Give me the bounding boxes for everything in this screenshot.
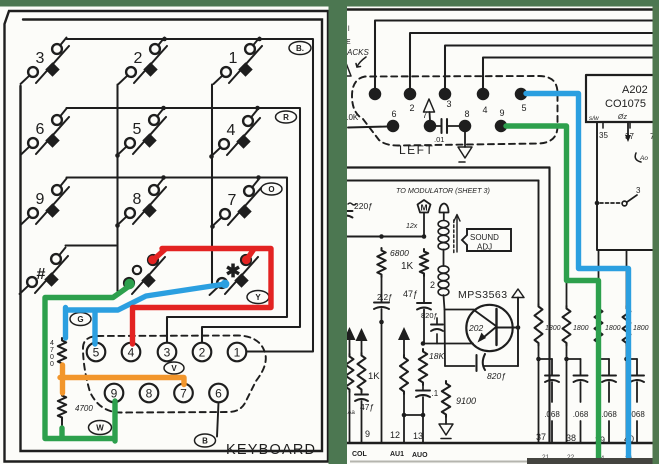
- red wire end blobs: [148, 255, 251, 264]
- svg-text:0: 0: [50, 354, 54, 361]
- keyboard pin 1: [228, 343, 247, 362]
- svg-text:MPS3563: MPS3563: [458, 289, 508, 301]
- row bus B (row 1) with corner down to pin 1: [67, 37, 314, 352]
- resistor 1K (lower): [358, 353, 381, 392]
- ground below DIN pin 8: [458, 132, 472, 163]
- svg-text:9: 9: [111, 387, 118, 401]
- transformer primary coil: [438, 221, 449, 250]
- svg-text:CO1075: CO1075: [605, 98, 646, 110]
- column line 3 (keys 1,4,7,*): [209, 85, 215, 285]
- row bus O (row 3) with corner down to pin 3: [67, 175, 288, 342]
- svg-text:2: 2: [430, 280, 435, 290]
- svg-text:1800: 1800: [545, 325, 561, 332]
- resistor 1800 #3: [595, 250, 621, 443]
- svg-text:2: 2: [409, 103, 414, 113]
- resistor (left edge): [346, 354, 354, 443]
- svg-text:W: W: [96, 424, 104, 433]
- capacitor .068 #1: [539, 359, 561, 443]
- svg-text:Ao: Ao: [639, 155, 648, 162]
- key switch 1: [214, 38, 263, 85]
- keyboard pin 9: [105, 384, 124, 403]
- top green binding bar: [0, 0, 659, 7]
- capacitor 820f (emitter): [445, 354, 518, 381]
- svg-text:A202: A202: [622, 84, 648, 96]
- bottom pin numbers: [365, 429, 634, 445]
- svg-text:13: 13: [413, 431, 423, 441]
- svg-text:SOUND: SOUND: [470, 233, 499, 242]
- green wire end blob: [124, 279, 134, 289]
- svg-text:.1: .1: [432, 389, 439, 398]
- wire pin6 to node B: [217, 403, 219, 437]
- svg-text:4: 4: [482, 105, 487, 115]
- key switch 5: [118, 109, 167, 156]
- main circuit box top border: [347, 166, 550, 168]
- key switch 6: [21, 109, 70, 156]
- svg-text:M: M: [420, 203, 427, 213]
- svg-text:Y: Y: [255, 293, 261, 302]
- node Y (row4): [247, 291, 269, 304]
- svg-text:V: V: [171, 364, 177, 373]
- A202 pin line to rail: [595, 122, 655, 250]
- svg-text:LEFT: LEFT: [399, 143, 434, 157]
- right green page edge: [653, 7, 659, 464]
- svg-text:B.: B.: [296, 44, 304, 53]
- svg-text:6: 6: [391, 109, 396, 119]
- blue wire end blob: [221, 280, 230, 289]
- IC A202 CO1075 box: [586, 75, 655, 122]
- triangle above DIN pin 7: [424, 99, 435, 121]
- resistor 1800 #2: [563, 250, 589, 443]
- svg-text:2: 2: [199, 346, 206, 360]
- svg-text:TO MODULATOR (SHEET 3): TO MODULATOR (SHEET 3): [396, 186, 490, 195]
- node V: [164, 362, 184, 374]
- svg-text:.068: .068: [629, 410, 645, 419]
- keyboard pin 2: [193, 343, 212, 362]
- green page divider (top layer): [329, 7, 348, 464]
- svg-text:KEYBOARD: KEYBOARD: [226, 442, 316, 458]
- svg-text:1K: 1K: [401, 261, 414, 272]
- svg-text:38: 38: [566, 433, 576, 443]
- svg-text:0: 0: [50, 361, 54, 368]
- DIN pin 9 (bottom row): [496, 108, 507, 131]
- svg-text:220ƒ: 220ƒ: [354, 201, 373, 211]
- capacitor 220f at left edge: [340, 201, 373, 237]
- wire 6800 column to bottom: [381, 322, 383, 443]
- svg-text:37: 37: [536, 432, 546, 442]
- key switch 7: [213, 180, 262, 227]
- svg-text:8: 8: [464, 109, 469, 119]
- node W: [89, 421, 112, 435]
- left edge marks: [348, 410, 356, 416]
- svg-text:4: 4: [128, 346, 135, 360]
- svg-text:9: 9: [365, 429, 370, 439]
- DIN pin 5 (top row): [516, 89, 527, 113]
- svg-text:3: 3: [36, 50, 45, 67]
- svg-text:5: 5: [521, 103, 526, 113]
- svg-text:3: 3: [446, 99, 451, 109]
- key switch 4: [212, 110, 261, 157]
- wire DIN pin 4 up and right: [483, 58, 655, 90]
- keyboard pin 3: [158, 343, 177, 362]
- svg-text:4: 4: [50, 340, 54, 347]
- svg-text:8: 8: [146, 387, 153, 401]
- resistor 9100: [442, 381, 476, 417]
- resistor 18K: [419, 349, 445, 385]
- wire emitter bottom-left: [421, 341, 473, 346]
- svg-text:9: 9: [36, 191, 45, 208]
- label 2 (coil tap): [430, 280, 435, 290]
- key switch #: [20, 248, 69, 295]
- LEFT connector dashed outline: [352, 76, 558, 146]
- key switch 0: [117, 249, 166, 296]
- key switch *: [210, 249, 259, 296]
- svg-text:12: 12: [390, 430, 400, 440]
- tiny edge numbers: [542, 454, 633, 462]
- node B (pin6): [195, 434, 216, 447]
- resistor 4700 (lower): [58, 393, 94, 429]
- svg-text:820ƒ: 820ƒ: [487, 371, 506, 381]
- svg-text:202: 202: [468, 323, 483, 333]
- svg-text:4: 4: [227, 122, 236, 139]
- supply triangle middle column: [398, 327, 410, 355]
- wire 1800 #1 to inner border: [538, 181, 540, 305]
- triangle above coil: [440, 204, 449, 221]
- wire coil to transistor base: [445, 309, 474, 311]
- wire DIN pin 6 to left edge: [348, 127, 388, 128]
- svg-text:✱: ✱: [225, 261, 240, 281]
- svg-text:ADJ: ADJ: [477, 243, 492, 252]
- column line 1 (keys 3,6,9,#): [19, 86, 21, 300]
- label 10K: [344, 113, 359, 122]
- blue wire (DIN pin 5 down right side): [526, 94, 629, 464]
- keyboard pin 8: [140, 384, 159, 403]
- svg-text:47ƒ: 47ƒ: [403, 289, 418, 299]
- svg-text:2: 2: [134, 50, 143, 67]
- svg-text:6: 6: [215, 387, 222, 401]
- svg-text:3: 3: [164, 346, 171, 360]
- svg-text:AU1: AU1: [390, 451, 404, 458]
- orange wire (resistors to pin 7): [60, 365, 184, 393]
- svg-text:G: G: [77, 315, 83, 324]
- label TO MODULATOR (SHEET 3): [396, 186, 490, 195]
- keyboard panel box: [21, 20, 323, 452]
- svg-text:18K: 18K: [429, 351, 444, 361]
- green wire (DIN pin 9 down right side): [506, 126, 599, 464]
- capacitor .068 #3: [599, 359, 618, 443]
- top green binding bar (top layer): [0, 0, 659, 7]
- label LEFT: [399, 143, 434, 157]
- svg-text:9: 9: [499, 108, 504, 118]
- left page border: [5, 11, 329, 462]
- capacitor 820f (base): [421, 311, 443, 344]
- keyboard pin 7: [174, 384, 193, 403]
- svg-text:5: 5: [133, 121, 142, 138]
- node G: [70, 313, 91, 326]
- DIN pin 2 (top row): [405, 89, 416, 113]
- svg-text:7: 7: [180, 387, 187, 401]
- svg-text:B: B: [202, 437, 208, 446]
- svg-text:1800: 1800: [633, 325, 649, 332]
- svg-text:7: 7: [50, 347, 54, 354]
- svg-text:ACKS: ACKS: [346, 48, 369, 57]
- svg-text:1800: 1800: [605, 325, 621, 332]
- svg-text:.068: .068: [544, 410, 560, 419]
- DIN pin 3 (top row): [440, 89, 452, 109]
- wire DIN pin 2 up and right: [410, 33, 655, 89]
- supply rail: [347, 234, 426, 239]
- svg-text:AUO: AUO: [412, 452, 428, 459]
- collector supply triangle: [512, 289, 524, 366]
- node R (row2): [276, 111, 297, 123]
- bottom labels: [352, 451, 428, 459]
- green wire (key 0 to pin 9 and resistor): [45, 286, 130, 442]
- transistor Q1 MPS3563: [466, 305, 518, 351]
- blue wire (key * to pin 5 and resistor): [66, 284, 226, 344]
- resistor 6800: [377, 248, 409, 277]
- svg-text:Øz: Øz: [617, 114, 627, 121]
- capacitor .068 #4: [627, 359, 646, 443]
- svg-text:12x: 12x: [406, 223, 418, 230]
- keyboard pin 4: [122, 343, 141, 362]
- svg-text:6800: 6800: [390, 248, 409, 258]
- green page divider: [329, 7, 348, 464]
- capacitor 2.2f: [374, 277, 393, 324]
- resistor 1K (upper): [401, 249, 428, 276]
- DIN pin 4 (top row): [478, 89, 489, 115]
- wire DIN pin 1 up and right: [375, 21, 655, 90]
- key switch 9: [21, 179, 70, 226]
- resistor 4700 (upper): [50, 338, 66, 368]
- transformer core arrow: [454, 215, 460, 254]
- main circuit box bottom rail: [347, 442, 655, 444]
- DIN pin 7 (bottom row): [422, 110, 435, 131]
- svg-text:.068: .068: [601, 410, 617, 419]
- svg-text:4700: 4700: [75, 404, 93, 413]
- label MPS3563: [458, 289, 508, 301]
- svg-text:Aa: Aa: [348, 410, 356, 416]
- svg-text:1800: 1800: [573, 325, 589, 332]
- switch S3 from A202: [600, 186, 641, 206]
- row bus R (row 2) with corner down to pin 2: [67, 106, 301, 342]
- left column supply triangle: [344, 327, 356, 354]
- ground below 9100: [439, 417, 453, 439]
- A202 arrow pin: [625, 122, 648, 162]
- capacitor 47f (upper): [403, 276, 431, 344]
- main circuit box right border: [548, 168, 550, 444]
- right page top border: [347, 8, 655, 10]
- wire DIN pin 3 up and right: [445, 46, 655, 90]
- svg-text:.01: .01: [434, 135, 444, 144]
- svg-text:1: 1: [229, 50, 238, 67]
- node O (row3): [261, 183, 282, 195]
- capacitor .068 #2: [567, 359, 589, 443]
- capacitor .01 between pins 7,8: [434, 119, 460, 144]
- svg-text:s/w: s/w: [589, 115, 600, 122]
- capacitor 47f (lower): [355, 392, 374, 443]
- label KEYBOARD: [226, 442, 316, 458]
- svg-text:R: R: [283, 113, 289, 122]
- svg-text:.068: .068: [573, 410, 589, 419]
- right green page edge (top layer): [653, 7, 659, 464]
- resistor middle column: [400, 355, 408, 443]
- supply triangle 1K column: [356, 328, 368, 353]
- key switch 8: [118, 179, 167, 226]
- svg-text:35: 35: [599, 131, 608, 140]
- svg-text:O: O: [268, 185, 274, 194]
- inner box top border: [347, 179, 539, 181]
- svg-text:#: #: [37, 266, 46, 283]
- transformer secondary coil: [438, 250, 449, 367]
- bottom dark page edge: [350, 458, 653, 464]
- svg-text:3: 3: [636, 186, 641, 195]
- svg-text:COL: COL: [352, 451, 368, 458]
- key switch 3: [21, 38, 70, 85]
- DIN pin 6 (bottom row): [388, 109, 399, 131]
- row bus 4 (black remnant): [66, 244, 117, 246]
- svg-text:1: 1: [234, 346, 241, 360]
- key switch 2: [119, 38, 168, 85]
- svg-text:6: 6: [36, 121, 45, 138]
- keyboard pin 5: [87, 343, 106, 362]
- A202 pin stubs and numbers: [599, 122, 655, 141]
- svg-text:2.2ƒ: 2.2ƒ: [377, 293, 393, 302]
- DIN pin 1 (top row): [370, 89, 381, 100]
- capacitor .1: [402, 385, 439, 443]
- svg-text:9100: 9100: [456, 396, 476, 406]
- svg-text:1K: 1K: [368, 371, 380, 382]
- modulator M symbol: [406, 200, 431, 237]
- DIN pin 8 (bottom row): [460, 109, 471, 131]
- SOUND ADJ box: [462, 229, 511, 252]
- svg-text:7: 7: [228, 192, 237, 209]
- svg-text:8: 8: [133, 191, 142, 208]
- jacks text fragments: [341, 26, 369, 76]
- resistor 1800 #1: [535, 304, 561, 443]
- keyboard connector dashed outline: [83, 336, 266, 413]
- svg-text:5: 5: [93, 346, 100, 360]
- column line 2 (keys 2,5,8,0): [115, 85, 120, 292]
- resistor 1800 #4: [623, 250, 649, 443]
- red wire (keys 0,* row to pin 4): [133, 249, 272, 345]
- node B. (row1): [289, 42, 311, 55]
- keyboard pin 6: [209, 384, 228, 403]
